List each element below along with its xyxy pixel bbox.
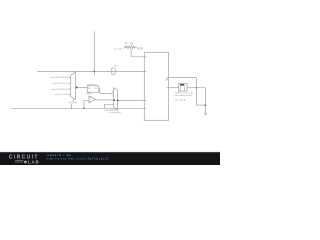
resistor R7 body — [126, 46, 133, 49]
speaker SP1 right wire — [187, 88, 205, 114]
speaker SP1 body — [178, 83, 187, 91]
mux U1 output wire — [76, 87, 88, 89]
resistor R7 leads — [124, 46, 137, 48]
mux U2 select stub — [110, 109, 116, 111]
mux U1 select wire — [71, 99, 73, 108]
svg-text:and outpt A: and outpt A — [175, 98, 186, 101]
digital timing box X1 — [87, 86, 99, 92]
speaker SP1 left wire — [169, 87, 179, 89]
mux U1 trapezoid — [71, 72, 76, 100]
ground symbol — [204, 114, 207, 116]
svg-text:MOSI: MOSI — [137, 48, 143, 50]
svg-text:mod (0.5/3.58s)(9s): mod (0.5/3.58s)(9s) — [51, 89, 69, 91]
mux U2 parallelogram — [113, 88, 117, 111]
digital timing output wire — [99, 88, 114, 93]
svg-text:U4: U4 — [165, 78, 169, 82]
svg-text:clk (4.0/2.186s): clk (4.0/2.186s) — [55, 94, 70, 96]
junction at crossing — [196, 87, 198, 89]
op-amp plus minus marks — [90, 97, 91, 101]
svg-text:pot wipr 3: pot wipr 3 — [114, 48, 124, 51]
mux U1 input stubs — [69, 77, 71, 94]
svg-text:out (4.3/3.19s)(43%): out (4.3/3.19s)(43%) — [50, 76, 69, 79]
IC U4 box — [144, 52, 168, 120]
resistor R7 terminal left — [125, 47, 126, 48]
svg-text:LAB: LAB — [28, 159, 39, 164]
svg-text:transrff / da: transrff / da — [47, 153, 72, 157]
mux U2 output wire — [118, 100, 145, 102]
node junction on long wire — [93, 71, 95, 73]
svg-text:l.m also(2Hz): l.m also(2Hz) — [109, 112, 122, 114]
svg-text:OA1(x): OA1(x) — [86, 92, 93, 95]
op-amp input wire — [84, 100, 89, 108]
junction near ground — [205, 104, 207, 106]
wire long horizontal net to U4 — [37, 70, 144, 72]
potentiometer R7 wiper wire — [131, 49, 146, 57]
svg-text:0.068u L vals = 1.3u: 0.068u L vals = 1.3u — [175, 93, 195, 95]
svg-text:IN1: IN1 — [88, 88, 91, 90]
mux U2 input stubs — [112, 92, 114, 96]
svg-text:sig (0.1/2.09s) (1s): sig (0.1/2.09s) (1s) — [52, 83, 70, 85]
D-shape gate inline — [112, 68, 116, 75]
op-amp OA1 — [89, 96, 95, 103]
mux U2 input wire from bottom net — [104, 104, 113, 108]
net label texts — [50, 44, 194, 114]
CircuitLab logo — [9, 154, 39, 164]
svg-text:http://circuitlab.com/c/3g7j9j: http://circuitlab.com/c/3g7j9jcgs25 — [47, 157, 109, 161]
svg-text:take advntg of fold: take advntg of fold — [175, 94, 193, 97]
U4 right pin wire to ground net — [169, 78, 206, 106]
bottom long wire — [11, 107, 144, 109]
U4 pin stubs inside — [144, 57, 168, 109]
bottom black bar — [0, 151, 220, 154]
resistor R7 terminal right — [133, 47, 134, 48]
wire vertical branch — [93, 31, 95, 75]
op-amp output wire — [95, 99, 113, 101]
svg-text:sel (fq/h): sel (fq/h) — [69, 102, 77, 104]
svg-text:digi timing: digi timing — [87, 83, 97, 86]
